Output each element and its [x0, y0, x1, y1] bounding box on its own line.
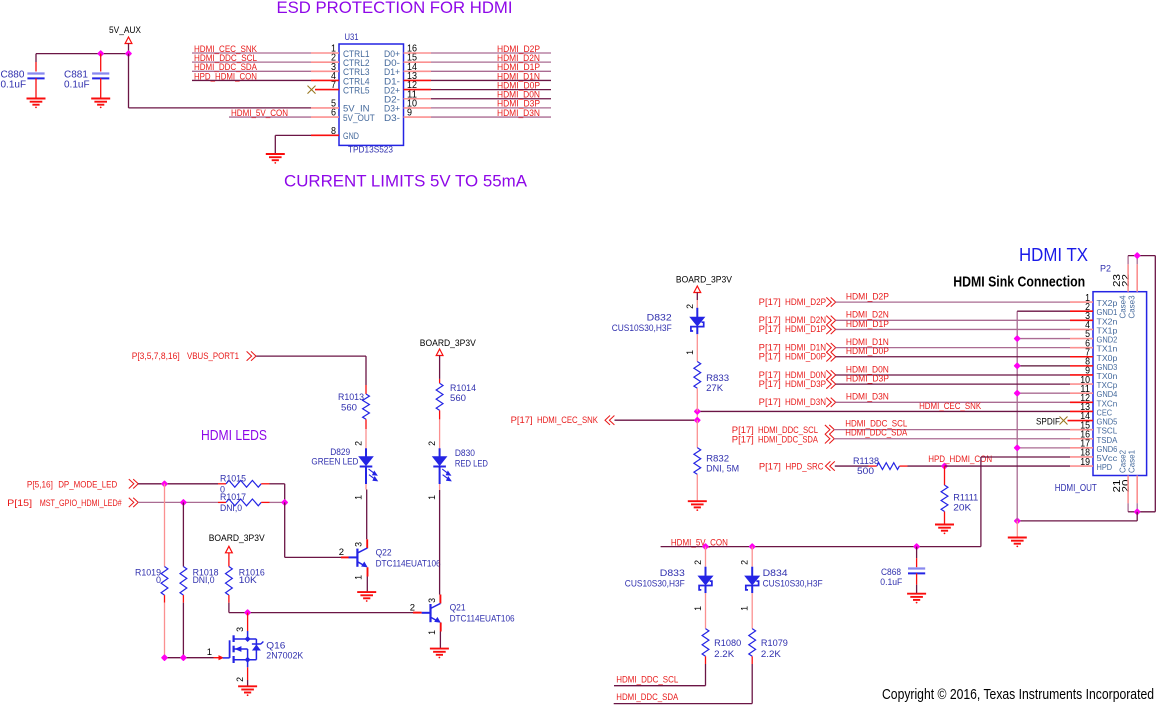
wire U31 GND horizontal: [275, 134, 311, 136]
wire gate horizontal: [165, 657, 214, 659]
P2 pin 6 stub: [1070, 347, 1093, 349]
svg-text:HDMI Sink Connection: HDMI Sink Connection: [953, 274, 1085, 290]
wire HDMI_DDC_SCL to P2: [834, 429, 1070, 431]
junction R1018 gate wire: [181, 655, 186, 660]
wire net HDMI_DDC_SCL to U31: [192, 61, 311, 63]
resistor R1018 bottom stub: [182, 595, 184, 603]
wire Q22 emitter to ground: [366, 577, 368, 593]
power flag 5V_AUX: [125, 37, 132, 44]
svg-text:HDMI_D1P: HDMI_D1P: [785, 324, 826, 334]
junction Q16 drain on Q21 base wire: [245, 610, 250, 615]
P2 pin 7 stub: [1070, 356, 1093, 358]
junction 5V at C868: [914, 544, 919, 549]
svg-text:HDMI_5V_CON: HDMI_5V_CON: [671, 537, 728, 547]
P2 pin 8 stub: [1070, 365, 1093, 367]
port chevron HPD_SRC: [825, 461, 834, 470]
wire Q16 source to ground: [247, 680, 249, 686]
resistor R1018: [180, 567, 187, 596]
P2 pin 14 stub: [1068, 420, 1094, 422]
resistor R1111 top stub: [944, 466, 946, 485]
wire BOARD_3P3V to R1014: [439, 356, 441, 379]
wire R1013 to D829: [365, 429, 367, 449]
resistor R1019: [161, 567, 168, 596]
U31 pin 4 stub: [311, 79, 339, 81]
svg-text:VBUS_PORT1: VBUS_PORT1: [187, 351, 239, 361]
junction 5V_AUX at riser: [126, 51, 131, 56]
wire P2 pin 5 to bus: [1017, 338, 1070, 340]
port chevron HDMI_D2P: [826, 297, 835, 306]
diode D833 CUS10S30: [699, 567, 713, 593]
diode D832 top stub: [696, 300, 698, 308]
svg-text:R1013: R1013: [338, 392, 364, 402]
P2 pin 18 stub: [1070, 456, 1093, 458]
capacitor C880 top stub: [35, 62, 37, 72]
svg-text:DTC114EUAT106: DTC114EUAT106: [450, 614, 515, 624]
wire VBUS_PORT1 horizontal: [256, 355, 366, 357]
svg-text:R1017: R1017: [220, 492, 246, 502]
svg-text:P[17]: P[17]: [759, 324, 781, 334]
svg-text:0.1uF: 0.1uF: [1, 79, 27, 90]
svg-text:2: 2: [354, 441, 364, 446]
wire net HDMI_D1P from U31: [431, 70, 551, 72]
LED D829 green: [359, 448, 377, 484]
svg-text:R832: R832: [706, 454, 729, 464]
svg-text:2: 2: [235, 677, 245, 682]
port chevron HDMI_D3P: [826, 379, 835, 388]
svg-text:HDMI_D3N: HDMI_D3N: [785, 397, 826, 407]
svg-text:1: 1: [427, 495, 437, 500]
wire case2 drop: [1127, 503, 1129, 512]
wire net HDMI_D0N to P2: [836, 374, 1071, 376]
svg-text:HDMI_DDC_SDA: HDMI_DDC_SDA: [616, 692, 678, 702]
svg-text:2: 2: [693, 560, 703, 565]
junction ground bus bottom: [1015, 518, 1020, 523]
wire 5V_AUX horizontal: [36, 53, 129, 55]
svg-text:C868: C868: [881, 567, 901, 577]
wire case3 riser: [1136, 256, 1138, 265]
U31 pin 12 stub: [404, 89, 432, 91]
junction CEC lower: [695, 418, 700, 423]
svg-text:20: 20: [1120, 479, 1132, 492]
wire R833 to junction: [696, 388, 698, 411]
U31 pin 11 stub: [404, 98, 432, 100]
svg-text:GREEN LED: GREEN LED: [311, 456, 358, 466]
wire P2 pin 17 to bus: [1017, 447, 1070, 449]
svg-text:TPD13S523: TPD13S523: [348, 145, 393, 155]
ground U31 pin 8: [266, 154, 285, 164]
ground R832: [688, 501, 707, 511]
Q22 base stub: [341, 556, 349, 558]
Q21 collector stub: [439, 595, 441, 604]
port chevron HDMI_D0N: [826, 370, 835, 379]
svg-text:P[17]: P[17]: [759, 462, 781, 472]
wire D832 to R833: [696, 334, 698, 361]
wire 5Vcc from P2: [981, 456, 1070, 458]
svg-text:27K: 27K: [706, 383, 723, 393]
svg-text:P[15]: P[15]: [7, 498, 32, 508]
transistor Q16 2N7002K: [223, 631, 264, 667]
wire CEC jog vertical: [696, 411, 698, 420]
resistor R1017: [226, 499, 261, 506]
junction bus pin 8: [1015, 363, 1020, 368]
junction 5V at D833: [703, 544, 708, 549]
resistor R1138: [877, 463, 900, 470]
U31 pin 7 stub: [315, 89, 339, 91]
svg-text:DNI, 5M: DNI, 5M: [706, 464, 739, 474]
svg-text:HDMI_5V_CON: HDMI_5V_CON: [231, 108, 288, 118]
port chevron HDMI_D1N: [826, 343, 835, 352]
ground R1111: [935, 525, 954, 535]
wire R832 to ground: [696, 474, 698, 501]
wire net HDMI_CEC_SNK to U31: [192, 52, 311, 54]
wire MST_GPIO_HDMI_LED#: [138, 501, 218, 503]
ground Q16: [238, 686, 257, 696]
svg-text:P[3,5,7,8,16]: P[3,5,7,8,16]: [132, 351, 180, 361]
junction CEC upper: [695, 409, 700, 414]
svg-text:2: 2: [410, 603, 415, 614]
resistor R1015 left stub: [218, 483, 226, 485]
U31 pin 13 stub: [404, 79, 432, 81]
Q16 drain stub: [247, 613, 249, 631]
svg-text:DP_MODE_LED: DP_MODE_LED: [58, 479, 117, 489]
wire R1016 corner: [228, 603, 230, 613]
resistor R1080: [702, 629, 709, 657]
svg-text:1: 1: [207, 647, 212, 658]
power flag BOARD_3P3V (D832): [694, 286, 701, 293]
resistor R1016: [226, 567, 233, 596]
svg-text:CUS10S30,H3F: CUS10S30,H3F: [612, 323, 672, 333]
svg-text:P[17]: P[17]: [759, 379, 781, 389]
ground C880: [27, 99, 46, 109]
wire net HDMI_D3N to P2: [836, 401, 1071, 403]
svg-text:0: 0: [156, 575, 161, 585]
port chevron DP_MODE_LED: [129, 479, 138, 488]
svg-text:HDMI TX: HDMI TX: [1019, 245, 1088, 265]
svg-text:20K: 20K: [953, 503, 971, 513]
U31 pin 14 stub: [404, 70, 432, 72]
P2 pin 11 stub: [1070, 392, 1093, 394]
wire net HDMI_D2N from U31: [431, 61, 551, 63]
svg-text:P[17]: P[17]: [759, 352, 781, 362]
wire HPD_SRC to R1138: [835, 465, 869, 467]
svg-text:R1014: R1014: [450, 383, 476, 393]
wire 5V_AUX to 5V_IN vertical: [128, 54, 130, 108]
svg-text:HDMI LEDS: HDMI LEDS: [201, 428, 267, 444]
P2 pin 9 stub: [1070, 374, 1093, 376]
wire net HDMI_D0P to P2: [836, 356, 1071, 358]
wire case2 join: [1128, 511, 1137, 513]
capacitor C881 top stub: [100, 54, 102, 72]
P2 pin 12 stub: [1070, 401, 1093, 403]
wire R1015 to junction: [270, 483, 285, 485]
svg-text:R1111: R1111: [953, 493, 978, 503]
port chevron HDMI_CEC_SNK: [605, 416, 614, 425]
wire Q21 emitter to ground: [439, 632, 441, 649]
svg-text:P[5,16]: P[5,16]: [27, 479, 53, 489]
wire GND bus vertical: [1016, 311, 1018, 521]
svg-text:2N7002K: 2N7002K: [266, 651, 303, 661]
svg-text:22: 22: [1120, 274, 1132, 287]
resistor R1080 bottom stub: [705, 656, 707, 664]
svg-text:HDMI_D0P: HDMI_D0P: [785, 352, 826, 362]
resistor R1079 bottom stub: [751, 656, 753, 664]
wire D834 to R1079: [751, 593, 753, 629]
wire net HDMI_5V_CON: [229, 116, 311, 118]
wire D830 to Q21: [439, 484, 441, 490]
resistor R1017 right stub: [261, 501, 269, 503]
svg-text:GND: GND: [343, 131, 359, 141]
P2 pin 5 stub: [1070, 338, 1093, 340]
wire case top horizontal: [1128, 255, 1155, 257]
svg-text:HDMI_D3N: HDMI_D3N: [497, 108, 540, 118]
svg-text:HPD_HDMI_CON: HPD_HDMI_CON: [928, 454, 992, 464]
svg-text:R1138: R1138: [853, 456, 879, 466]
U31 pin 1 stub: [311, 52, 339, 54]
svg-text:P[17]: P[17]: [759, 297, 781, 307]
junction bus pin 17: [1015, 445, 1020, 450]
connector P2 body: [1093, 292, 1147, 476]
svg-text:500: 500: [857, 466, 874, 476]
svg-text:1: 1: [427, 630, 437, 635]
wire D829 to Q22 lower: [366, 490, 368, 540]
resistor R1014 bottom stub: [439, 410, 441, 419]
P2 pin 10 stub: [1070, 383, 1093, 385]
svg-text:1: 1: [693, 606, 703, 611]
wire net HDMI_D0P from U31: [431, 89, 551, 91]
wire 5V_AUX vertical: [128, 44, 130, 54]
wire D830 to Q21 lower: [439, 490, 441, 595]
P2 pin 2 stub: [1070, 310, 1093, 312]
wire C868 top: [916, 547, 918, 559]
svg-text:HDMI_D3P: HDMI_D3P: [846, 373, 889, 383]
svg-text:HDMI_DDC_SDA: HDMI_DDC_SDA: [845, 428, 907, 438]
resistor R1013: [363, 394, 370, 419]
P2 pin 21 stub: [1127, 476, 1129, 504]
wire R1079 down: [751, 664, 753, 704]
P2 pin 1 stub: [1070, 301, 1093, 303]
svg-text:HDMI_CEC_SNK: HDMI_CEC_SNK: [537, 415, 598, 425]
P2 pin 23 stub: [1127, 264, 1129, 291]
wire Q22 base: [285, 556, 341, 558]
svg-text:SPDIF: SPDIF: [1036, 416, 1060, 426]
svg-text:DTC114EUAT106: DTC114EUAT106: [376, 559, 441, 569]
svg-text:5V_OUT: 5V_OUT: [343, 113, 375, 123]
wire case right join: [1137, 511, 1155, 513]
svg-text:DNI,0: DNI,0: [193, 575, 215, 585]
resistor R1019 bottom stub: [164, 595, 166, 603]
svg-text:Case3: Case3: [1127, 295, 1137, 318]
svg-text:DNI,0: DNI,0: [220, 503, 242, 513]
svg-text:RED LED: RED LED: [455, 458, 488, 468]
wire net HDMI_D1N from U31: [431, 79, 551, 81]
wire net HDMI_D3P from U31: [431, 107, 551, 109]
junction 5V at D834: [750, 544, 755, 549]
wire R1018 down: [182, 603, 184, 658]
P2 pin 15 stub: [1070, 429, 1093, 431]
wire D829 to Q22: [365, 484, 367, 490]
P2 pin 19 stub: [1070, 465, 1093, 467]
port chevron HDMI_D3N: [826, 398, 835, 407]
wire C880 top: [35, 54, 37, 62]
svg-text:Copyright © 2016, Texas Instru: Copyright © 2016, Texas Instruments Inco…: [882, 686, 1154, 703]
svg-text:CUS10S30,H3F: CUS10S30,H3F: [625, 579, 685, 589]
wire CEC to P2: [697, 410, 1070, 412]
svg-text:HPD_SRC: HPD_SRC: [786, 462, 824, 472]
svg-text:HDMI_DDC_SCL: HDMI_DDC_SCL: [616, 674, 678, 684]
wire P2 pin 2 to bus: [1017, 310, 1070, 312]
wire case1 drop: [1136, 503, 1138, 512]
svg-text:CURRENT LIMITS 5V TO 55mA: CURRENT LIMITS 5V TO 55mA: [284, 171, 528, 190]
P2 pin 3 stub: [1070, 319, 1093, 321]
wire net HDMI_D2P to P2: [836, 301, 1071, 303]
ground P2 shield bus: [1008, 538, 1027, 548]
svg-text:2.2K: 2.2K: [761, 649, 781, 659]
wire R1018 top: [182, 502, 184, 566]
resistor R1138 left stub: [869, 465, 877, 467]
junction MST wire at R1018: [181, 500, 186, 505]
svg-text:HPD: HPD: [1097, 462, 1113, 472]
svg-text:Q22: Q22: [376, 548, 392, 558]
wire U31 GND vertical: [274, 135, 276, 154]
resistor R1138 right stub: [899, 465, 907, 467]
svg-text:R1015: R1015: [220, 474, 246, 484]
resistor R1013 top stub: [365, 385, 367, 394]
U31 pin 16 stub: [404, 52, 432, 54]
Q22 emitter stub: [367, 567, 369, 576]
capacitor C868 bottom stub: [916, 573, 918, 584]
svg-text:5V_AUX: 5V_AUX: [109, 25, 142, 36]
resistor R832: [694, 448, 701, 475]
P2 pin 16 stub: [1070, 438, 1093, 440]
svg-text:560: 560: [341, 403, 357, 413]
power flag BOARD_3P3V (R1014): [436, 349, 443, 356]
svg-text:0.1uF: 0.1uF: [880, 577, 902, 587]
resistor R1017 left stub: [218, 501, 226, 503]
resistor R1015: [226, 480, 261, 487]
wire net HDMI_D2P from U31: [431, 52, 551, 54]
wire HDMI_DDC_SDA bottom: [614, 703, 753, 705]
U31 pin 6 stub: [311, 116, 339, 118]
svg-text:3: 3: [235, 627, 245, 632]
svg-text:Q16: Q16: [266, 641, 285, 651]
junction case bottom: [1135, 509, 1140, 514]
junction 5V_AUX at C881: [98, 51, 103, 56]
capacitor C880 bottom stub: [35, 78, 37, 98]
wire net HDMI_D1P to P2: [836, 328, 1071, 330]
wire net HDMI_D0N from U31: [431, 98, 551, 100]
port chevron HDMI_D1P: [826, 325, 835, 334]
resistor R1015 right stub: [261, 483, 269, 485]
port chevron HDMI_DDC_SDA: [825, 434, 834, 443]
wire R1015 corner down: [284, 484, 286, 503]
resistor R1016 top stub: [228, 559, 230, 567]
resistor R1111: [941, 485, 948, 511]
svg-text:D830: D830: [455, 448, 475, 458]
Q22 collector stub: [366, 539, 368, 548]
power flag BOARD_3P3V (R1016): [226, 546, 233, 553]
svg-text:CUS10S30,H3F: CUS10S30,H3F: [763, 579, 823, 589]
Q16 source stub: [247, 667, 249, 680]
ground Q22: [357, 592, 376, 602]
wire R1017 to junction: [270, 501, 285, 503]
capacitor C868: [908, 569, 925, 574]
svg-text:2: 2: [339, 547, 344, 558]
ground Q21: [430, 649, 449, 659]
wire net HDMI_D2N to P2: [836, 319, 1071, 321]
resistor R1016 bottom stub: [228, 595, 230, 603]
wire case ground run: [1017, 520, 1137, 522]
svg-text:Q21: Q21: [450, 603, 466, 613]
junction HPD at R1111: [942, 464, 947, 469]
svg-text:1: 1: [354, 495, 364, 500]
resistor R1079: [749, 629, 756, 657]
U31 pin 15 stub: [404, 61, 432, 63]
U31 pin 9 stub: [404, 116, 432, 118]
svg-text:HDMI_DDC_SDA: HDMI_DDC_SDA: [758, 434, 818, 444]
svg-text:BOARD_3P3V: BOARD_3P3V: [209, 533, 266, 544]
wire C868 to ground: [916, 585, 918, 594]
wire R1019 down: [164, 603, 166, 658]
junction bus pin 5: [1015, 336, 1020, 341]
U31 pin 10 stub: [404, 107, 432, 109]
svg-text:Case1: Case1: [1127, 450, 1137, 473]
svg-text:1: 1: [740, 606, 750, 611]
junction DP_MODE_LED at R1019: [162, 481, 167, 486]
transistor Q22: [349, 548, 368, 567]
svg-text:0.1uF: 0.1uF: [64, 79, 90, 90]
wire R1019 top: [164, 484, 166, 567]
capacitor C880: [27, 74, 44, 79]
transistor Q21: [422, 603, 441, 622]
wire BOARD_3P3V to R1016: [228, 553, 230, 559]
P2 pin 17 stub: [1070, 447, 1093, 449]
svg-text:P2: P2: [1100, 264, 1111, 274]
wire case4 riser: [1127, 256, 1129, 265]
P2 pin 4 stub: [1070, 328, 1093, 330]
capacitor C881 bottom stub: [100, 78, 102, 98]
svg-text:BOARD_3P3V: BOARD_3P3V: [420, 338, 477, 349]
ground C868: [907, 594, 926, 604]
wire junction down to Q22 base: [284, 502, 286, 557]
wire D833 to R1080: [705, 593, 707, 629]
wire HDMI_DDC_SCL bottom: [614, 685, 706, 687]
svg-text:MST_GPIO_HDMI_LED#: MST_GPIO_HDMI_LED#: [40, 498, 122, 508]
svg-text:1: 1: [685, 350, 695, 355]
port chevron HDMI_D2N: [826, 316, 835, 325]
wire BOARD_3P3V to D832: [696, 293, 698, 301]
ground bus stub: [1016, 521, 1018, 538]
svg-text:P[17]: P[17]: [759, 397, 781, 407]
wire R1138 to junction: [908, 465, 945, 467]
svg-text:BOARD_3P3V: BOARD_3P3V: [676, 275, 733, 286]
svg-text:560: 560: [450, 393, 466, 403]
U31 pin 3 stub: [311, 70, 339, 72]
port chevron HDMI_D0P: [826, 352, 835, 361]
svg-text:U31: U31: [345, 32, 359, 42]
svg-text:HDMI_D3P: HDMI_D3P: [785, 379, 826, 389]
port chevron HDMI_DDC_SCL: [825, 425, 834, 434]
Q21 emitter stub: [440, 623, 442, 632]
wire DP_MODE_LED: [138, 483, 218, 485]
svg-text:D3-: D3-: [384, 113, 400, 123]
resistor R1014: [436, 383, 443, 410]
no-connect X SPDIF: [1060, 417, 1068, 425]
resistor R1014 top stub: [439, 379, 441, 383]
svg-text:2: 2: [427, 441, 437, 446]
port chevron VBUS_PORT1: [247, 351, 256, 360]
svg-text:R1079: R1079: [761, 638, 788, 648]
junction case top: [1135, 253, 1140, 258]
